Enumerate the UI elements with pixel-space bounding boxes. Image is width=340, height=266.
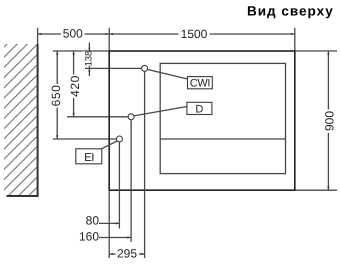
svg-text:500: 500 (63, 26, 83, 40)
svg-text:900: 900 (323, 111, 337, 131)
svg-text:D: D (195, 103, 203, 115)
svg-text:138: 138 (83, 51, 94, 67)
svg-text:295: 295 (117, 246, 137, 260)
svg-text:420: 420 (68, 75, 82, 97)
svg-text:CWI: CWI (190, 78, 211, 90)
svg-text:160: 160 (79, 230, 99, 244)
svg-text:Вид сверху: Вид сверху (247, 4, 334, 19)
svg-text:80: 80 (86, 214, 100, 228)
svg-text:EI: EI (84, 152, 94, 164)
svg-text:650: 650 (49, 85, 63, 107)
svg-text:1500: 1500 (181, 27, 208, 41)
